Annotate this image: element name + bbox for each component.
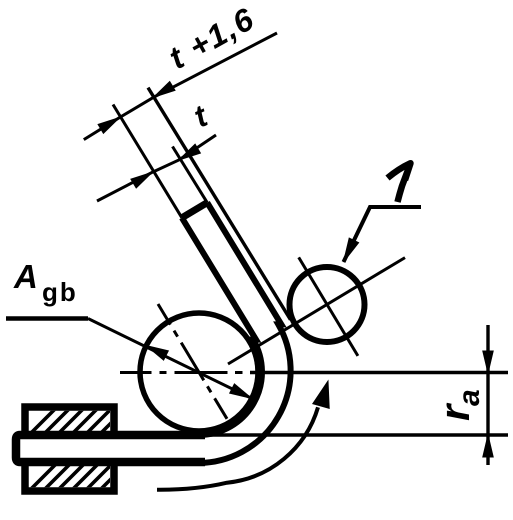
svg-text:A: A (13, 258, 38, 295)
extension line inner edge (for t and t+1,6) (113, 105, 182, 218)
dimension line t (97, 135, 216, 201)
arrowhead bend direction (313, 381, 329, 408)
svg-text:a: a (453, 389, 486, 406)
small roller centre line along strip (299, 257, 358, 356)
svg-text:gb: gb (42, 277, 78, 307)
clamp block (die) outer rectangle (25, 407, 114, 491)
label r_a (431, 389, 486, 421)
arrowhead r_a top (483, 351, 493, 373)
label 1 (388, 163, 411, 202)
A_gb leader angled segment (88, 319, 252, 399)
arrowhead r_a bottom (483, 435, 493, 457)
arrowhead item 1 leader (344, 238, 359, 262)
bend direction curved arrow (157, 407, 318, 489)
arrowhead t right (179, 144, 201, 160)
hatching upper die block (18, 396, 152, 446)
arrowhead A_gb lower-right (230, 384, 252, 399)
dimension line t+1,6 (84, 33, 277, 140)
r_a dimension line vertical (486, 325, 489, 465)
bend inner surface arc and bent-up flange inner edge (182, 218, 262, 435)
small roller circle (item 1) (290, 267, 365, 342)
roller horizontal centre line (dash-dot) (120, 371, 300, 374)
arrowhead t+1,6 left (98, 118, 120, 134)
flange end cap (182, 203, 207, 218)
r_a top extension line (250, 371, 508, 374)
roller (forming roll) circle (140, 313, 258, 431)
r_a bottom extension line (200, 433, 508, 436)
arrowhead t+1,6 right (154, 82, 176, 98)
extension line outer edge (for t) (173, 147, 208, 203)
arrowhead A_gb upper-left (146, 346, 168, 361)
hatching lower die block (18, 452, 152, 502)
small roller centre line across strip (228, 258, 405, 364)
die slot line (for t+1,6) (148, 88, 291, 320)
sheet blank horizontal part (clamped strip) (16, 435, 205, 462)
bend outer surface arc and bent-up flange outer edge (199, 203, 291, 463)
A_gb diameter dimension line with leader (6, 316, 88, 321)
roller inclined centre line (dash-dot) (158, 304, 227, 419)
item 1 leader line (344, 207, 422, 262)
arrowhead t left (131, 172, 153, 188)
